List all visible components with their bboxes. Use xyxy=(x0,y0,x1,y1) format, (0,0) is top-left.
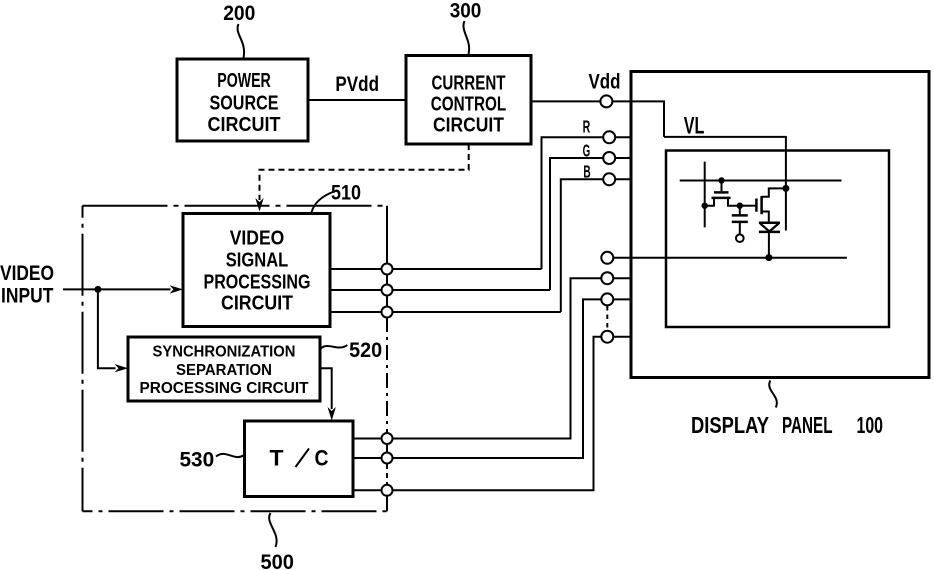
transistor T1 source lead xyxy=(705,198,714,206)
display panel box 100 xyxy=(631,72,929,378)
power source circuit box 200 xyxy=(177,59,308,141)
svg-text:PROCESSING CIRCUIT: PROCESSING CIRCUIT xyxy=(140,380,309,397)
svg-text:Vdd: Vdd xyxy=(589,70,621,93)
border 500 bottom edge xyxy=(83,510,388,512)
svg-text:CIRCUIT: CIRCUIT xyxy=(433,114,504,137)
wire VSP output R xyxy=(330,268,542,270)
junction dot video input xyxy=(94,286,101,293)
capacitor C1 bottom lead xyxy=(739,222,741,234)
arrowhead into T/C box xyxy=(328,407,336,421)
svg-text:PVdd: PVdd xyxy=(335,73,379,96)
wire VSP output B xyxy=(330,311,561,313)
leader squiggle 510 xyxy=(312,192,335,213)
svg-text:500: 500 xyxy=(260,551,294,570)
timing controller box T/C 530 xyxy=(245,421,354,497)
terminal module out B xyxy=(382,307,393,318)
capacitor common terminal circle xyxy=(736,234,744,242)
svg-text:PANEL: PANEL xyxy=(782,412,833,438)
svg-text:510: 510 xyxy=(331,182,361,205)
terminal Vdd xyxy=(600,95,612,107)
svg-text:C: C xyxy=(315,446,329,471)
current control circuit box 300 xyxy=(406,56,531,145)
data line xyxy=(704,162,706,228)
svg-text:SEPARATION: SEPARATION xyxy=(176,362,272,379)
border 500 right edge dashed segment xyxy=(386,464,388,484)
svg-text:CIRCUIT: CIRCUIT xyxy=(208,113,281,136)
leader squiggle 500 xyxy=(269,513,276,547)
svg-text:SYNCHRONIZATION: SYNCHRONIZATION xyxy=(153,344,296,361)
svg-text:SOURCE: SOURCE xyxy=(210,92,279,115)
capacitor C1 top lead xyxy=(739,206,741,215)
scan line xyxy=(680,180,842,182)
svg-text:CURRENT: CURRENT xyxy=(432,72,506,95)
svg-text:T: T xyxy=(270,446,285,471)
dashed control line from current control circuit xyxy=(260,144,469,200)
svg-text:VIDEO: VIDEO xyxy=(0,262,54,285)
wire VL inside panel xyxy=(664,137,786,231)
wire R: panel terminal to module terminal xyxy=(542,137,632,269)
svg-text:100: 100 xyxy=(857,412,884,438)
border 500 left edge xyxy=(82,206,84,512)
border 500 right edge solid through terminals xyxy=(386,432,388,464)
wire T/C output 1 to panel terminal xyxy=(353,278,631,438)
capacitor C1 bottom plate xyxy=(732,221,748,224)
svg-text:POWER: POWER xyxy=(217,69,271,92)
svg-text:INPUT: INPUT xyxy=(1,285,53,308)
arrowhead into VSP box xyxy=(170,285,184,293)
svg-text:VIDEO: VIDEO xyxy=(230,227,285,250)
transistor T1 gate bar xyxy=(714,191,729,194)
terminal R xyxy=(603,131,615,143)
junction dot VL/drain xyxy=(782,185,789,192)
wire video input xyxy=(63,288,171,290)
wire B xyxy=(561,179,631,312)
svg-text:520: 520 xyxy=(349,339,382,362)
terminal B xyxy=(603,173,615,185)
border 500 right edge dash-dot middle xyxy=(386,317,388,432)
svg-text:G: G xyxy=(583,140,591,160)
junction dot OLED/scan-out xyxy=(765,254,772,261)
wire PVdd: power source to current control xyxy=(308,99,406,101)
leader squiggle 520 xyxy=(321,345,348,349)
terminal module tc3 xyxy=(382,485,393,496)
border 500 top edge xyxy=(83,205,388,207)
border 500 right edge lower solid xyxy=(386,484,388,511)
transistor T2 source lead xyxy=(762,212,769,223)
svg-text:PROCESSING: PROCESSING xyxy=(204,271,311,294)
terminal module out G xyxy=(382,285,393,296)
terminal module out R xyxy=(382,264,393,275)
terminal panel ctrl 1 xyxy=(601,272,613,284)
terminal panel ctrl 3 xyxy=(601,331,613,343)
pixel area inner box xyxy=(666,151,889,328)
wire G xyxy=(550,158,631,290)
dashed omitted terminals on panel xyxy=(606,306,608,330)
wire sync box to T/C xyxy=(320,368,332,409)
transistor T2 gate bar xyxy=(755,199,758,212)
arrowhead dashed control into VSP xyxy=(255,198,263,212)
OLED triangle xyxy=(760,224,779,232)
terminal G xyxy=(603,152,615,164)
leader squiggle 200 xyxy=(238,24,245,58)
terminal scan xyxy=(601,252,613,264)
transistor T1 drain lead xyxy=(728,198,740,206)
svg-text:530: 530 xyxy=(179,449,214,472)
label DISPLAY PANEL 100 xyxy=(691,412,883,438)
svg-text:200: 200 xyxy=(223,2,255,25)
junction dot scan/gate xyxy=(718,177,724,183)
junction dot data/source xyxy=(702,203,708,209)
transistor T2 drain lead xyxy=(762,188,786,196)
svg-text:B: B xyxy=(583,161,590,181)
wire T1 to T2 gate xyxy=(740,205,756,207)
synchronization separation processing circuit box 520 xyxy=(128,337,320,401)
junction dot storage node xyxy=(737,203,743,209)
transistor T2 channel bar xyxy=(760,196,763,214)
svg-text:CIRCUIT: CIRCUIT xyxy=(221,292,293,315)
video signal processing circuit box 510 xyxy=(183,214,330,327)
svg-text:CONTROL: CONTROL xyxy=(431,93,507,116)
arrowhead into sync box xyxy=(115,364,129,372)
leader squiggle 530 xyxy=(216,454,244,457)
terminal panel ctrl 2 xyxy=(601,293,613,305)
label VIDEO INPUT xyxy=(0,262,54,308)
leader squiggle display panel xyxy=(769,381,777,408)
leader squiggle 300 xyxy=(463,21,469,54)
svg-text:300: 300 xyxy=(450,0,482,23)
wire scan line from terminal into pixel xyxy=(607,257,847,259)
wire Vdd: current control to panel xyxy=(531,101,664,136)
OLED cathode lead xyxy=(768,232,770,258)
wire T/C output 3 to panel terminal xyxy=(353,337,631,491)
transistor T1 channel bar xyxy=(712,197,731,200)
wire VSP output G xyxy=(330,289,550,291)
OLED anode bar xyxy=(759,222,780,225)
svg-text:DISPLAY: DISPLAY xyxy=(691,412,769,438)
wire T/C output 2 to panel terminal xyxy=(353,299,631,458)
wire input branch to sync box xyxy=(98,289,116,368)
capacitor C1 top plate xyxy=(732,214,748,217)
transistor T1 gate lead xyxy=(721,181,723,192)
terminal module tc2 xyxy=(382,453,393,464)
terminal module tc1 xyxy=(382,433,393,444)
border 500 right edge upper solid xyxy=(386,206,388,317)
svg-text:R: R xyxy=(583,117,591,137)
svg-text:SIGNAL: SIGNAL xyxy=(226,249,289,272)
OLED cathode bar xyxy=(759,231,780,234)
svg-text:VL: VL xyxy=(684,113,705,140)
